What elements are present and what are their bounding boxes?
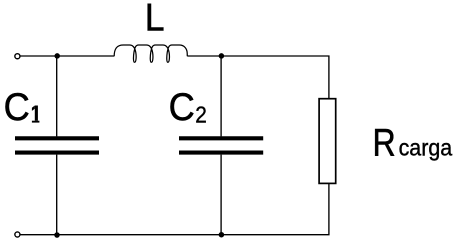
svg-text:C: C [169, 86, 195, 129]
svg-text:carga: carga [399, 135, 453, 161]
svg-text:2: 2 [195, 102, 207, 128]
svg-text:C: C [4, 86, 30, 129]
svg-text:R: R [373, 121, 396, 164]
svg-text:L: L [145, 0, 165, 39]
